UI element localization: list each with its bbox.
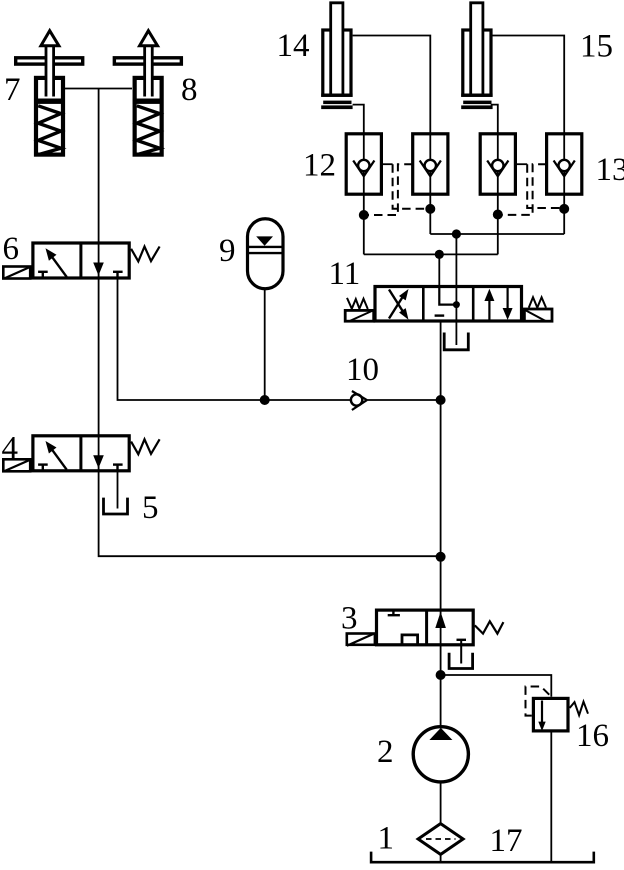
pump 2 xyxy=(413,727,468,782)
svg-text:15: 15 xyxy=(580,29,613,65)
svg-text:13: 13 xyxy=(596,152,624,188)
wire bus A xyxy=(364,253,498,255)
pilot check valve 13 xyxy=(547,134,582,194)
solenoid valve 3 xyxy=(347,610,504,663)
actuator 8 xyxy=(114,31,181,155)
svg-text:3: 3 xyxy=(341,601,358,637)
node bus B tee xyxy=(452,229,461,238)
pilot check valve left of 13 xyxy=(480,134,515,194)
wire relief branch xyxy=(441,675,552,697)
wire valve C pilot stub xyxy=(515,163,527,165)
wire valve 12 pilot stub xyxy=(381,163,392,165)
wire B port down through valve 11 to tank xyxy=(455,234,457,345)
pilot line valve 13 (dashed) xyxy=(501,164,547,215)
cylinder 14 xyxy=(321,3,352,109)
valve 11 tank xyxy=(444,333,468,350)
svg-text:5: 5 xyxy=(142,490,159,526)
wire accumulator 9 drop xyxy=(264,288,266,400)
filter 1 xyxy=(418,824,463,855)
svg-text:11: 11 xyxy=(329,256,361,292)
svg-text:14: 14 xyxy=(277,28,310,64)
svg-text:17: 17 xyxy=(490,823,523,859)
svg-text:9: 9 xyxy=(219,233,236,269)
solenoid valve 4 xyxy=(3,436,159,472)
relief valve 16 xyxy=(526,687,589,732)
svg-text:12: 12 xyxy=(303,148,336,184)
wire A port to valve 11 xyxy=(438,254,440,286)
svg-text:4: 4 xyxy=(2,431,19,467)
svg-text:1: 1 xyxy=(378,821,395,857)
wire bus B xyxy=(430,233,564,235)
tank 5 xyxy=(104,498,128,514)
tank 17 xyxy=(371,852,594,863)
node pilot tee line C xyxy=(493,210,503,220)
svg-text:16: 16 xyxy=(576,718,609,754)
pilot check valve 12 xyxy=(346,134,381,194)
wire relief outlet to tank xyxy=(550,733,552,862)
cylinder 15 xyxy=(461,3,492,109)
wire pump to filter xyxy=(440,782,442,825)
pilot line valve B (dashed) xyxy=(367,164,413,215)
svg-text:10: 10 xyxy=(346,352,379,388)
wire cyl15 rod end to valve 13 xyxy=(492,36,565,235)
node bus A tee xyxy=(435,250,444,259)
wire cyl7 to cyl8 xyxy=(65,88,132,90)
actuator 7 xyxy=(16,31,83,155)
svg-text:7: 7 xyxy=(4,72,21,108)
solenoid valve 6 xyxy=(3,243,159,279)
wire main P line valve 11 to pump 2 xyxy=(440,323,442,728)
wire valve 4 drain stub xyxy=(117,471,119,509)
svg-text:6: 6 xyxy=(3,231,20,267)
check valve 10 xyxy=(351,391,367,410)
wire valve 6 side port down to check valve 10 xyxy=(118,278,351,400)
wire cyl15 base to valve line xyxy=(491,105,498,255)
node pilot tee line 13 xyxy=(559,204,569,214)
wire cyl14 base to valve 12 xyxy=(353,105,364,255)
svg-text:8: 8 xyxy=(181,72,198,108)
node check valve to P tee xyxy=(436,395,446,405)
wire junction to valve 6 and through valve 4 to pump line xyxy=(99,89,441,557)
wire filter to tank xyxy=(440,853,442,861)
node pilot tee line B xyxy=(425,204,435,214)
wire cyl14 rod end to valve line xyxy=(353,36,431,235)
svg-text:2: 2 xyxy=(377,734,394,770)
valve 11 left solenoid xyxy=(345,298,374,322)
directional valve 11 xyxy=(375,287,522,322)
pilot line valve 12 (dashed) xyxy=(393,164,427,209)
node accumulator tee xyxy=(260,395,270,405)
valve 11 right solenoid xyxy=(524,297,552,321)
wire check valve 10 to P line xyxy=(367,399,441,401)
node pilot tee line 12 xyxy=(359,210,369,220)
node relief tee xyxy=(436,670,446,680)
pilot line valve C (dashed) xyxy=(527,164,561,208)
accumulator 9 xyxy=(248,219,284,289)
pilot check valve right of 12 xyxy=(413,134,448,194)
node valve 4 tee xyxy=(436,552,446,562)
valve 3 tank xyxy=(449,653,473,669)
